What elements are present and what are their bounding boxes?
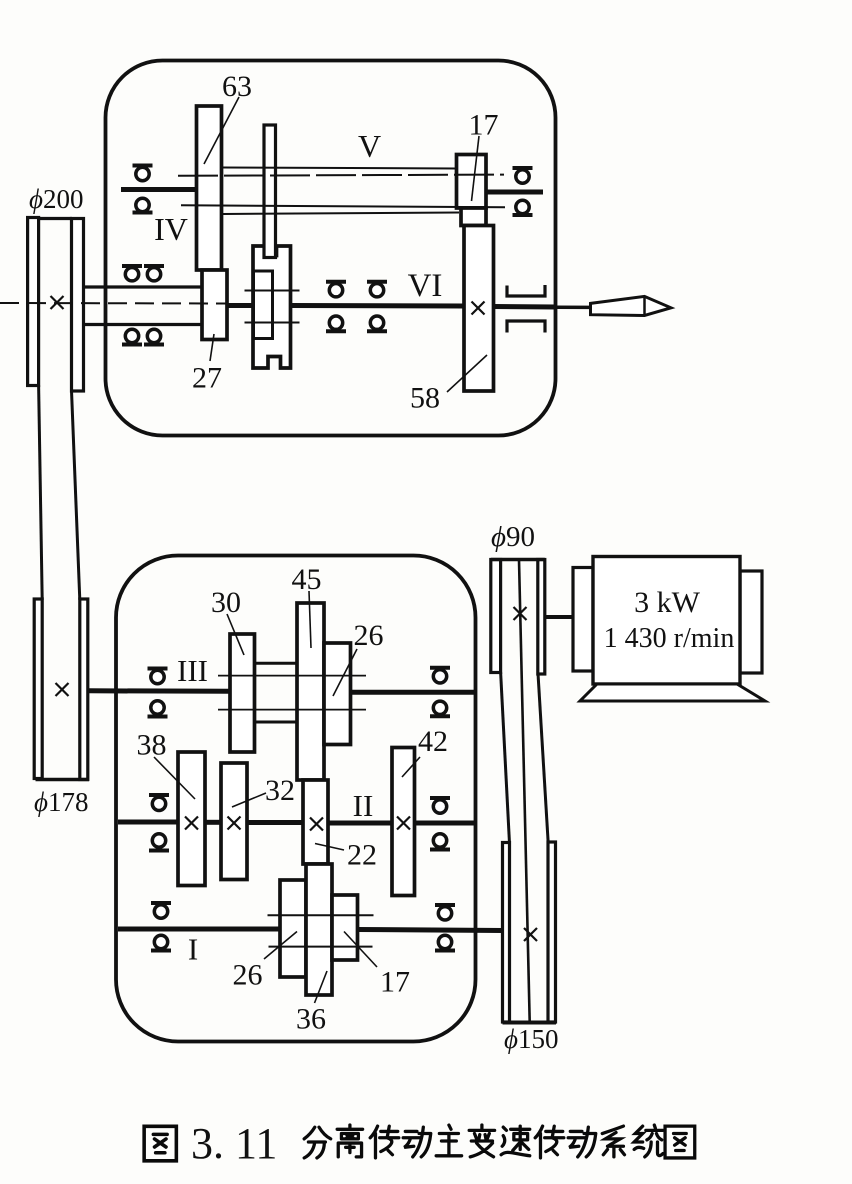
sleeve line 30-45 bottom: [255, 721, 298, 724]
gear 27: [202, 270, 227, 340]
svg-text:I: I: [188, 932, 198, 967]
svg-text:III: III: [177, 653, 208, 688]
bearing I right lower: [435, 935, 455, 950]
gear 36: [306, 864, 332, 995]
gear 22 center mark: [310, 818, 323, 831]
gear 58 center mark: [472, 302, 485, 315]
shaft IV left journal: [121, 187, 196, 192]
gear 42: [392, 748, 415, 896]
motor base: [580, 684, 765, 701]
shaft II seg3: [247, 820, 303, 825]
svg-text:38: 38: [137, 729, 167, 762]
right belt line 1 free span: [501, 672, 510, 844]
pulley phi90 center mark: [514, 607, 527, 620]
bearing spindle mid1 lower: [326, 316, 346, 331]
shaft I thin line lower: [269, 946, 373, 948]
svg-text:ϕ178: ϕ178: [34, 787, 88, 817]
gear 45: [297, 603, 324, 780]
sleeve line 30-45 top: [255, 662, 298, 665]
leader 30: [227, 614, 244, 655]
spindle VI segment c: [494, 304, 557, 310]
leader 38: [154, 757, 195, 799]
bearing II right lower: [430, 834, 450, 850]
leader 26 shaft III: [333, 649, 357, 696]
belt left edge free span (phi200-phi178): [39, 385, 43, 600]
svg-text:42: 42: [418, 725, 448, 758]
bearing I right upper: [435, 905, 455, 920]
pulley phi178 bottom cap: [36, 778, 90, 781]
pulley phi90 left flange: [491, 560, 501, 673]
bearing spindle sleeve lower 2: [144, 329, 164, 344]
small gear on shaft V: [264, 125, 276, 258]
motor right end block: [740, 571, 762, 673]
leader 17 top: [472, 136, 480, 201]
bearing II left upper: [149, 795, 169, 811]
shaft V right journal: [487, 190, 543, 195]
svg-text:VI: VI: [408, 268, 443, 304]
motor body: [593, 557, 740, 685]
spindle VI dashed centerline: [0, 302, 226, 305]
mesh tick lower: [245, 322, 300, 324]
svg-text:36: 36: [296, 1003, 326, 1036]
gear 58 (spindle VI): [464, 226, 494, 392]
bearing shaft V upper: [513, 168, 533, 183]
pulley phi90 top cap: [491, 558, 545, 561]
svg-text:17: 17: [469, 109, 499, 142]
bearing I left lower: [151, 935, 171, 950]
sliding bearing bracket lower: [507, 321, 545, 333]
svg-text:32: 32: [265, 774, 295, 807]
svg-text:II: II: [353, 788, 374, 823]
gear 42 center mark: [397, 817, 410, 830]
pulley phi178 left flange: [34, 599, 42, 779]
pulley phi200 center mark: [51, 296, 64, 309]
svg-text:1 430 r/min: 1 430 r/min: [604, 623, 735, 654]
shaft II seg4: [328, 821, 392, 826]
bearing II left lower: [149, 834, 169, 851]
pulley phi200 right flange: [72, 219, 84, 392]
pulley phi150 right flange: [548, 842, 556, 1022]
right belt line 2 (middle): [519, 560, 530, 1022]
bottom gearbox housing: [116, 556, 476, 1042]
svg-text:45: 45: [292, 563, 322, 596]
gear 26 (shaft III): [324, 643, 351, 745]
output arrow crossbar: [643, 296, 646, 315]
bearing III right upper: [430, 668, 450, 683]
pulley phi178 right flange: [80, 599, 88, 780]
shaft V lower line 2: [223, 213, 459, 215]
sliding clutch block on spindle VI: [253, 246, 291, 368]
gear 38: [178, 752, 205, 886]
gear 38 center mark: [185, 817, 198, 830]
svg-text:3. 11: 3. 11: [191, 1119, 277, 1168]
clutch block inner step: [254, 271, 273, 339]
shaft III spline line lower: [218, 709, 366, 711]
pulley phi200 top cap: [38, 217, 72, 220]
bearing spindle sleeve lower 1: [122, 329, 142, 344]
shaft V upper line: [223, 168, 457, 169]
bearing spindle mid1 upper: [326, 282, 346, 297]
pulley phi150 bottom cap: [503, 1021, 557, 1025]
gear 17 hub segment: [461, 208, 486, 226]
gear 30: [230, 634, 255, 752]
bearing spindle sleeve upper 1: [122, 266, 142, 281]
shaft I right segment: [358, 930, 503, 931]
svg-text:ϕ150: ϕ150: [504, 1024, 558, 1054]
pulley phi150 center mark: [524, 928, 537, 941]
pulley phi150 left flange: [503, 843, 510, 1023]
leader 45: [309, 591, 311, 648]
spindle sleeve top line: [84, 285, 201, 288]
motor left end block: [573, 568, 593, 672]
bearing shaft V lower: [513, 200, 533, 215]
leader 32: [232, 793, 266, 807]
leader 22: [315, 844, 344, 851]
svg-text:3 kW: 3 kW: [634, 586, 701, 619]
svg-text:IV: IV: [154, 211, 188, 247]
shaft V axis line: [178, 175, 504, 176]
svg-text:30: 30: [211, 586, 241, 619]
shaft III right segment: [351, 690, 476, 695]
spindle VI segment b: [291, 303, 465, 309]
gear 22: [303, 780, 328, 864]
right belt line 3 free span: [538, 674, 548, 844]
svg-text:27: 27: [192, 362, 222, 395]
gear 17 (shaft V): [457, 155, 487, 209]
output arrow: [591, 296, 672, 315]
caption: tu 3.11 fen li chuan dong zhu bian su chuan dong xi tong tu: [144, 1125, 695, 1161]
svg-text:ϕ200: ϕ200: [29, 184, 83, 214]
bearing III left upper: [148, 669, 168, 684]
leader 36: [315, 971, 328, 1003]
spindle VI output stub: [556, 305, 591, 309]
shaft I left segment: [118, 927, 280, 932]
pulley phi178 center mark: [56, 683, 69, 696]
svg-text:63: 63: [222, 70, 252, 103]
belt right edge free span (phi200-phi178): [72, 391, 80, 601]
shaft II seg5: [415, 821, 476, 826]
bearing I left upper: [151, 903, 171, 918]
leader 27: [210, 334, 214, 361]
bearing II right upper: [430, 798, 450, 813]
shaft II seg1: [118, 820, 178, 825]
pulley phi90 right flange: [538, 560, 545, 675]
bearing spindle sleeve upper 2: [144, 266, 164, 281]
leader 42: [402, 757, 420, 777]
bearing III left lower: [148, 701, 168, 717]
shaft III spline line upper: [218, 675, 366, 677]
shaft I thin line upper: [268, 914, 374, 916]
gear 63: [197, 106, 222, 270]
shaft III left segment: [89, 688, 230, 694]
bearing spindle mid2 upper: [367, 282, 387, 297]
shaft V lower line: [181, 205, 505, 207]
bearing shaft IV lower: [133, 198, 153, 212]
mesh tick upper: [245, 290, 300, 292]
leader 63: [204, 97, 239, 164]
top gearbox housing: [106, 61, 556, 436]
svg-text:26: 26: [233, 959, 263, 992]
leader 17 shaft I: [344, 932, 377, 968]
svg-text:V: V: [358, 128, 381, 164]
motor shaft link: [545, 615, 573, 619]
shaft II seg2: [205, 820, 221, 825]
svg-text:22: 22: [347, 839, 377, 872]
bearing spindle mid2 lower: [367, 316, 387, 331]
svg-text:26: 26: [354, 619, 384, 652]
gear 17 (shaft I): [332, 895, 358, 960]
svg-text:17: 17: [380, 966, 410, 999]
spindle sleeve bottom line: [84, 323, 201, 326]
leader 58: [447, 355, 487, 392]
svg-text:ϕ90: ϕ90: [491, 521, 535, 553]
bearing III right lower: [430, 701, 450, 716]
svg-text:58: 58: [410, 382, 440, 415]
gear 26 (shaft I): [280, 880, 306, 977]
leader 26 shaft I: [264, 932, 297, 960]
spindle VI segment a: [227, 303, 253, 308]
gear 32 center mark: [228, 817, 241, 830]
bearing shaft IV upper: [133, 166, 153, 181]
sliding bearing bracket upper: [507, 285, 545, 296]
pulley phi200 left flange: [28, 218, 39, 386]
gear 32: [221, 763, 247, 880]
